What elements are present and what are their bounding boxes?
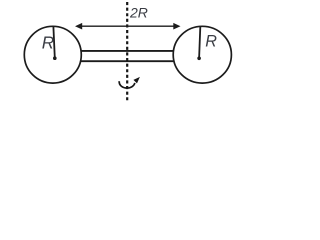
svg-text:2R: 2R bbox=[129, 5, 148, 21]
sphere right bbox=[173, 26, 231, 83]
wire rod top line bbox=[79, 50, 177, 52]
radius line right bbox=[199, 27, 200, 58]
radius line left bbox=[53, 27, 54, 58]
axis dotted line bbox=[126, 2, 128, 101]
center dot left bbox=[53, 56, 57, 60]
svg-text:R: R bbox=[205, 33, 217, 51]
svg-text:R: R bbox=[42, 33, 54, 53]
center dot right bbox=[197, 57, 201, 61]
sphere left bbox=[24, 26, 81, 83]
rotation arrow bbox=[119, 77, 140, 88]
wire rod bottom line bbox=[79, 60, 177, 62]
dimension arrow 2R bbox=[75, 23, 181, 30]
